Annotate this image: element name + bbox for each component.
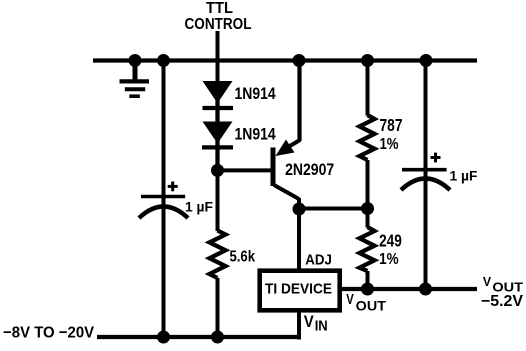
node collector junction dot [293,203,306,216]
svg-text:ADJ: ADJ [305,252,332,268]
wire right column (rail through C2 to VOUT rail) [424,61,428,290]
node R1 top junction dot [361,54,374,67]
wire R2 to VOUT rail [366,271,370,289]
pin label VOUT (at box) [346,292,386,313]
label VOUT -5.2V (right) [481,274,524,310]
node ground junction dot [129,54,142,67]
svg-text:1 µF: 1 µF [450,168,478,184]
capacitor C2 1uF (right, polarized) [401,153,450,190]
node C1/bottom junction dot [157,331,170,344]
node R3/bottom junction dot [211,331,224,344]
wire VOUT rail [342,287,478,291]
svg-text:IN: IN [315,319,328,335]
svg-text:CONTROL: CONTROL [185,16,252,33]
resistor R1 787 1% [360,115,375,160]
svg-text:V: V [346,292,354,308]
wire TTL control down to diode D1 (crosses rail, no dot) [216,31,220,82]
svg-text:TI DEVICE: TI DEVICE [265,281,332,298]
node base junction dot [211,164,224,177]
wire collector node down to ADJ pin [297,209,301,269]
svg-text:−8V TO −20V: −8V TO −20V [3,324,94,341]
transistor Q1 2N2907 [273,61,300,210]
svg-text:1%: 1% [380,136,399,153]
label TTL CONTROL [185,0,252,33]
ground [120,61,150,97]
wire top ground rail [93,58,477,62]
node C2/VOUT junction dot [419,283,432,296]
wire left column (rail through C1 to bottom rail) [162,61,166,338]
resistor R2 249 1% [360,227,375,271]
wire R3 to bottom rail [216,278,220,338]
wire bottom rail [97,335,301,339]
node R2/VOUT junction dot [361,283,374,296]
wire mid node to resistor R2 [366,209,370,228]
diode D1 1N914 [203,81,234,122]
node emitter-column junction dot [293,54,306,67]
svg-text:TTL: TTL [206,0,233,17]
svg-text:V: V [483,274,491,289]
wire VIN pin down to bottom rail [297,312,301,340]
node left-column junction dot [157,54,170,67]
capacitor C1 1uF (left, polarized) [139,182,188,219]
svg-text:1 µF: 1 µF [185,199,213,215]
node R1/R2 junction dot [361,202,374,215]
op-amp U1 TI DEVICE box [260,271,340,311]
resistor R3 5.6k [210,231,226,279]
wire collector to R1/R2 node [299,207,368,211]
svg-text:−5.2V: −5.2V [481,293,524,310]
svg-text:249: 249 [379,230,402,250]
svg-text:2N2907: 2N2907 [285,160,334,179]
wire rail to resistor R1 [366,61,370,116]
svg-text:787: 787 [380,115,403,135]
wire base wire to transistor [218,168,274,172]
svg-text:1N914: 1N914 [235,85,277,103]
svg-text:1N914: 1N914 [235,125,277,143]
svg-text:1%: 1% [379,251,399,268]
node C2 top junction dot [420,54,433,67]
pin label VIN [304,312,328,334]
svg-text:5.6k: 5.6k [230,248,256,265]
wire diode node down to resistor R3 5.6k [216,170,220,231]
svg-text:OUT: OUT [356,298,387,313]
wire R1 to mid node [366,160,370,209]
diode D2 1N914 [202,122,233,171]
svg-text:V: V [304,312,315,331]
